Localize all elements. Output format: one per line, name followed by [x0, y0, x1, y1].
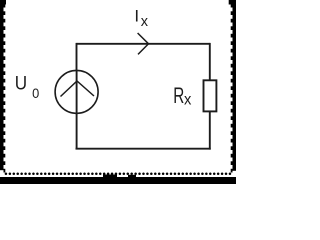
wire bottom horizontal return — [76, 148, 211, 150]
svg-text:0: 0 — [32, 86, 39, 101]
wire right vertical from resistor Rx pin 2 to bottom wire — [209, 112, 211, 150]
resistor Rx body — [204, 80, 217, 111]
svg-text:U: U — [15, 72, 27, 93]
source U0 circle body — [55, 70, 98, 113]
wire right vertical from top wire to resistor Rx pin 1 — [209, 43, 211, 80]
svg-text:I: I — [134, 6, 139, 25]
wire top horizontal (node between source and Rx) — [77, 43, 210, 45]
svg-text:x: x — [184, 91, 192, 108]
current direction arrowhead for Ix on top wire — [138, 33, 149, 54]
wire left vertical from top wire to source U0 — [76, 43, 78, 71]
label Ix — [134, 6, 148, 30]
svg-text:R: R — [173, 84, 184, 109]
source U0 internal arrow chevron — [61, 81, 95, 97]
label U0 — [15, 72, 40, 100]
svg-text:x: x — [141, 14, 149, 30]
wire vertical through source U0 down to bottom wire — [76, 70, 78, 149]
label Rx — [173, 84, 191, 109]
